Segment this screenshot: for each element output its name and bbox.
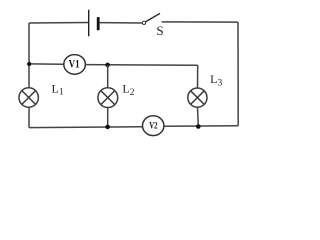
wire: middle horizontal left (node to V1) [29,63,64,65]
battery long plate (positive) [88,10,90,37]
svg-text:S: S [156,23,163,38]
wire: L2 bottom to bottom wire [107,108,109,127]
svg-text:V1: V1 [69,59,80,71]
node C: junction dot below L2 [105,125,110,130]
wire: drop to L3 top [197,65,199,88]
wire: left vertical upper (corner down to lamp L1) [28,23,30,88]
wire: bottom right segment [164,125,238,128]
wire: L3 bottom to bottom wire [197,107,200,126]
wire: drop to L2 top [107,65,109,88]
node A: junction dot left vertical / middle wire [27,62,31,66]
wire: bottom left segment [29,126,143,129]
lamp L3 [188,88,207,107]
wire: L1 bottom to bottom-left corner [28,107,30,127]
node D: junction dot below L3 [196,124,201,129]
svg-text:V2: V2 [149,122,158,132]
lamp L1 [19,88,38,107]
wire: right vertical [237,22,239,126]
wire: switch to top-right corner [162,21,238,23]
battery short plate (negative) [97,17,100,30]
switch pivot circle [142,21,145,24]
voltmeter V2 [143,116,164,136]
wire: battery to switch [100,22,142,24]
wire: top-left horizontal (corner to battery) [29,22,88,25]
switch blade [146,13,160,21]
voltmeter V1 [64,55,86,75]
lamp L2 [98,88,118,108]
node B: junction dot middle wire above L2 [105,63,110,68]
wire: middle horizontal right (V1 to corner above L3) [86,64,198,67]
